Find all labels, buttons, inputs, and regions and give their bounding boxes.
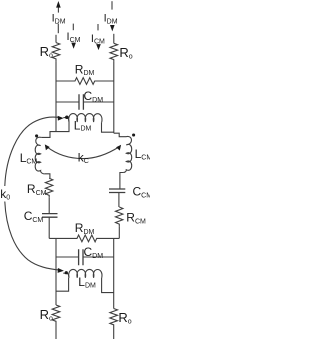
node stub left rail under IDM label xyxy=(57,24,59,34)
inductor LCM left xyxy=(35,137,44,174)
dot LCM right xyxy=(132,133,135,136)
svg-text:RCM: RCM xyxy=(27,182,47,197)
svg-text:RDM: RDM xyxy=(75,221,95,236)
resistor Ro bottom-left xyxy=(52,305,60,324)
svg-text:CDM: CDM xyxy=(84,245,104,260)
wire left rail top xyxy=(55,35,57,43)
dot LDM bottom xyxy=(65,271,68,274)
svg-text:Ro: Ro xyxy=(40,44,53,60)
svg-text:ICM: ICM xyxy=(67,31,81,44)
svg-text:Ro: Ro xyxy=(119,45,132,61)
inductor LDM bottom xyxy=(63,269,102,278)
resistor RDM top xyxy=(56,78,114,85)
capacitor CCM left xyxy=(42,214,58,218)
svg-text:LCM: LCM xyxy=(135,147,150,161)
resistor Ro bottom-right xyxy=(110,309,118,340)
dot LCM left xyxy=(35,134,38,137)
coupling arc k0 lower xyxy=(5,202,64,273)
svg-text:LDM: LDM xyxy=(74,118,92,132)
resistor Ro top-right xyxy=(110,43,118,61)
svg-text:LCM: LCM xyxy=(20,151,38,165)
wire LDM top left drop xyxy=(56,122,69,132)
coupling arc k0 upper xyxy=(5,116,64,186)
wire LCM right bottom tail xyxy=(120,173,123,190)
svg-text:CCM: CCM xyxy=(133,185,151,200)
wire right rail upper xyxy=(113,62,115,134)
arrow IDM left (up) xyxy=(56,1,61,13)
svg-text:ICM: ICM xyxy=(91,33,105,46)
wire left rail lower xyxy=(55,238,57,305)
inductor LDM top xyxy=(63,114,102,123)
wire xyxy=(118,226,120,238)
svg-text:CDM: CDM xyxy=(84,89,104,104)
wire LDM bottom right drop xyxy=(102,278,114,293)
wire right rail top xyxy=(113,34,115,44)
inductor LCM right xyxy=(123,136,132,172)
wire xyxy=(55,324,57,339)
arrow IDM right (down) xyxy=(110,1,115,31)
wire LDM top right drop xyxy=(102,122,114,132)
capacitor CDM bottom xyxy=(56,249,114,265)
svg-text:CCM: CCM xyxy=(24,209,44,224)
svg-text:kC: kC xyxy=(78,150,89,165)
resistor RCM left xyxy=(45,178,52,198)
svg-text:Ro: Ro xyxy=(40,307,53,323)
resistor Ro top-left xyxy=(52,43,60,62)
svg-text:Ro: Ro xyxy=(118,310,131,326)
wire LCM left bottom tail xyxy=(44,174,50,179)
wire staircase to LCM right xyxy=(114,133,126,137)
wire left rail upper xyxy=(55,62,57,132)
svg-text:IDM: IDM xyxy=(104,13,118,26)
capacitor CCM right xyxy=(109,189,125,193)
wire LDM bottom left drop xyxy=(56,278,69,291)
svg-text:RDM: RDM xyxy=(75,62,95,77)
arrow ICM right (down) xyxy=(96,24,101,50)
capacitor CDM top xyxy=(56,94,114,110)
wire staircase to LCM left xyxy=(41,132,56,138)
wire right rail lower xyxy=(113,238,115,308)
svg-text:RCM: RCM xyxy=(126,211,146,226)
wire xyxy=(48,217,50,238)
wire xyxy=(118,193,120,208)
svg-text:IDM: IDM xyxy=(52,13,66,26)
resistor RCM right xyxy=(116,207,123,226)
dot LDM top xyxy=(65,116,69,120)
wire xyxy=(48,198,50,214)
arrow ICM left (down) xyxy=(71,24,76,49)
svg-text:k0: k0 xyxy=(0,187,10,201)
coupling arc kC xyxy=(45,144,121,158)
resistor RDM bottom xyxy=(49,235,119,242)
